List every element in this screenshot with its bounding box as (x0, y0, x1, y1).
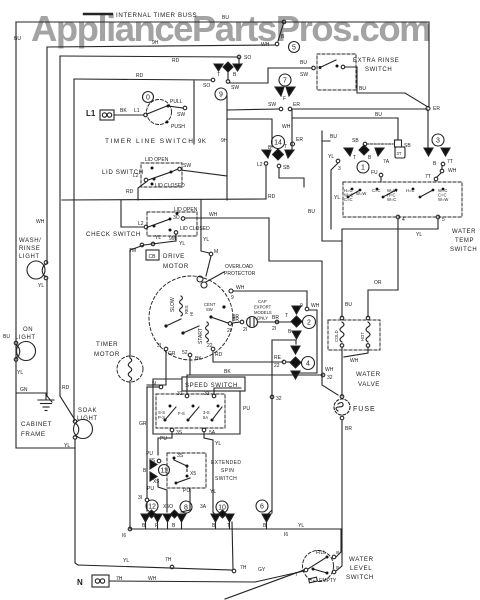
svg-text:SW: SW (183, 163, 191, 169)
terminal 7T lower (434, 177, 438, 181)
svg-text:PROTECTOR: PROTECTOR (224, 271, 256, 277)
svg-text:WATER: WATER (356, 371, 381, 378)
svg-text:L2: L2 (133, 173, 139, 179)
terminal FU (379, 173, 383, 177)
svg-text:ON: ON (23, 327, 33, 333)
label W=C C=C W=W stack (438, 188, 448, 202)
svg-text:BU: BU (330, 134, 337, 140)
svg-text:GR: GR (139, 421, 147, 427)
wire: capacitor to connector 2 (258, 321, 291, 323)
svg-text:START: START (198, 328, 204, 344)
svg-text:2I: 2I (272, 326, 276, 332)
wire: WH node up to y291 (306, 291, 308, 307)
svg-text:L1: L1 (86, 109, 96, 118)
check open contact (176, 212, 179, 215)
extra rinse switch dashed box (317, 54, 356, 90)
terminal 4 (396, 215, 400, 219)
cent switch contact (209, 305, 228, 323)
svg-text:7T: 7T (425, 174, 431, 180)
wire: SW contact feed to extra rinse (228, 68, 312, 83)
svg-text:X5: X5 (190, 471, 196, 477)
svg-text:SW: SW (268, 102, 276, 108)
svg-text:EXTRA RINSE: EXTRA RINSE (353, 58, 399, 64)
wire: x60 vertical (59, 56, 61, 396)
extended spin dashed box (167, 453, 206, 488)
wire: 3 terminal down left edge (331, 163, 338, 229)
svg-text:RD: RD (136, 73, 144, 79)
wire: ext spin out down (181, 488, 190, 512)
svg-text:TIMER LINE SWITCH: TIMER LINE SWITCH (105, 138, 194, 145)
svg-text:FUSE: FUSE (353, 406, 376, 413)
svg-text:WH: WH (36, 219, 45, 225)
svg-text:5: 5 (442, 217, 445, 223)
svg-text:3: 3 (436, 138, 440, 145)
svg-text:YL: YL (328, 154, 334, 160)
svg-text:BU: BU (308, 209, 315, 215)
svg-text:22: 22 (274, 363, 280, 369)
node 32 on right (321, 373, 325, 377)
circled 11 (159, 465, 170, 476)
svg-text:ONLY: ONLY (257, 316, 268, 321)
svg-text:7T: 7T (447, 159, 453, 165)
terminal RE 22 (282, 360, 286, 364)
motor winding SLOW (170, 296, 183, 316)
terminal 33 (212, 394, 216, 398)
lid switch dashed box (141, 163, 182, 187)
wire: RD line y200 (62, 199, 266, 200)
svg-text:DRIVE: DRIVE (163, 253, 185, 260)
svg-text:T: T (285, 313, 288, 319)
svg-text:3S: 3S (177, 453, 184, 459)
wire: lid SW to timer bus (181, 170, 227, 176)
speed contacts 3 (211, 405, 223, 422)
svg-text:4: 4 (306, 361, 310, 368)
svg-text:LEVEL: LEVEL (350, 565, 372, 572)
svg-text:YL: YL (38, 283, 44, 289)
circled 2 (303, 316, 316, 329)
svg-text:TIMER: TIMER (96, 341, 118, 348)
svg-text:T: T (284, 144, 287, 150)
svg-text:SO: SO (244, 55, 251, 61)
svg-text:2: 2 (307, 320, 311, 327)
wire: SO to T triangle (238, 57, 240, 63)
wire: 8 stubs to bus (168, 522, 182, 529)
svg-text:HI: HI (189, 312, 194, 316)
wire: extra rinse output to ER node (345, 67, 428, 107)
svg-text:2I: 2I (227, 328, 231, 334)
svg-text:YL: YL (17, 370, 23, 376)
terminal SW under 7 (279, 107, 283, 111)
empty contact (326, 570, 336, 574)
svg-text:2I: 2I (243, 327, 247, 333)
svg-text:PUSH: PUSH (171, 124, 185, 130)
ER node (426, 107, 430, 111)
on light (14, 341, 35, 361)
svg-text:WH: WH (236, 285, 245, 291)
end node (232, 569, 236, 573)
connector 6 triangle (262, 514, 271, 522)
svg-text:YL: YL (155, 235, 161, 241)
svg-text:BU: BU (222, 15, 229, 21)
label RES HI (184, 305, 194, 316)
lid closed contact (151, 183, 154, 186)
drive motor dashed circle (149, 276, 233, 360)
timer motor label (94, 341, 120, 358)
L1 plug connector (100, 110, 114, 120)
wire: 5I feed left and down (147, 386, 159, 388)
svg-text:L2: L2 (138, 221, 144, 227)
svg-text:3T: 3T (397, 151, 402, 156)
svg-text:WH: WH (148, 576, 157, 582)
svg-text:L1: L1 (134, 108, 140, 114)
wire: y119 branch to connector 14 (227, 119, 272, 147)
svg-text:YL: YL (210, 489, 216, 495)
connector 1 cluster (344, 145, 384, 156)
connector 14 triangles and diamond (262, 149, 294, 160)
label DRIVE MOTOR (163, 253, 189, 270)
node ER on x292 (291, 142, 295, 146)
terminal 22 RD (211, 347, 215, 351)
svg-text:GY: GY (258, 567, 266, 573)
water level pole (304, 557, 327, 573)
label WATER TEMP SWITCH (450, 229, 477, 253)
wire: RD diagonal to soak light (60, 396, 75, 420)
svg-text:RD: RD (62, 385, 70, 391)
svg-text:YL: YL (215, 441, 221, 447)
connector harness box (295, 310, 317, 373)
terminal WH (440, 169, 444, 173)
wire: cold bottom to fuse (341, 347, 343, 396)
svg-text:5: 5 (292, 45, 296, 52)
wire: BR to capacitor (232, 322, 240, 323)
svg-text:3A: 3A (200, 504, 207, 510)
overload protector symbol (197, 272, 224, 288)
wire: 33 to PU edge (214, 388, 241, 394)
circled 5 (289, 42, 300, 53)
wire: GY diagonal to pole (225, 570, 304, 599)
svg-text:7: 7 (295, 572, 298, 578)
svg-text:INTERNAL TIMER BUSS: INTERNAL TIMER BUSS (116, 12, 197, 19)
svg-text:3O: 3O (173, 215, 180, 221)
svg-text:BK: BK (195, 356, 202, 362)
svg-text:PU: PU (146, 451, 153, 457)
wire: hot bottom join (344, 347, 368, 357)
lid open contact (151, 167, 154, 170)
svg-text:PU: PU (147, 486, 154, 492)
timer line switch enclosure right edge (193, 81, 195, 144)
svg-text:PU: PU (243, 406, 250, 412)
wire: lid L2 down to RD line (138, 182, 146, 200)
terminal BR right (275, 320, 279, 324)
terminal 3I GR (164, 347, 168, 351)
svg-text:14: 14 (274, 140, 282, 147)
svg-text:CHECK SWITCH: CHECK SWITCH (86, 231, 141, 238)
wire: WH run right (233, 290, 307, 292)
temp switch contacts group 1 (347, 188, 362, 199)
lid switch pole L2 (144, 167, 181, 182)
wire: I5 to extended spin (158, 432, 172, 455)
terminal TM (140, 242, 155, 247)
svg-text:BU: BU (3, 334, 10, 340)
motor winding START (198, 322, 209, 344)
svg-text:OVERLOAD: OVERLOAD (225, 264, 253, 270)
terminal SO lower (211, 78, 215, 82)
wire: WH/ER vertical x292 (291, 109, 293, 149)
svg-text:5A: 5A (203, 415, 208, 420)
svg-text:BR: BR (272, 315, 279, 321)
terminal 7T (441, 162, 445, 166)
circled 8 (180, 501, 192, 513)
check switch pole (144, 218, 171, 229)
svg-text:RE: RE (274, 355, 282, 361)
wire: BU run to SB terminal (292, 118, 398, 140)
svg-text:9H: 9H (152, 40, 159, 46)
svg-text:P-S: P-S (158, 415, 165, 420)
svg-text:W=C: W=C (387, 197, 396, 202)
wire: RD bus lower (74, 79, 211, 80)
soak light (73, 420, 92, 440)
terminal 3S (157, 459, 161, 463)
svg-text:32: 32 (327, 375, 333, 381)
wire: x47 tail join (47, 396, 52, 402)
svg-text:C=C: C=C (344, 197, 353, 202)
svg-text:YL: YL (123, 558, 129, 564)
terminal 5A bottom (202, 428, 206, 432)
label CABINET FRAME (21, 421, 52, 438)
svg-text:52: 52 (182, 350, 188, 356)
label WATER VALVE (356, 371, 381, 388)
speed switch dashed box (156, 394, 225, 428)
wire: into dashed box (437, 173, 441, 177)
svg-text:GN: GN (20, 387, 28, 393)
label EXTENDED SPIN SWITCH (211, 460, 241, 482)
svg-text:N: N (77, 578, 83, 587)
terminal 3I (145, 498, 149, 502)
svg-text:BK: BK (120, 108, 127, 114)
node WH above 2 (305, 307, 309, 311)
svg-text:LID CLOSED: LID CLOSED (180, 226, 210, 232)
speed switch label box (182, 377, 245, 391)
svg-text:7H: 7H (116, 576, 123, 582)
svg-text:SWITCH: SWITCH (450, 247, 477, 253)
svg-text:PULL: PULL (170, 99, 183, 105)
svg-text:EXPORT: EXPORT (254, 305, 272, 310)
svg-text:4: 4 (402, 217, 405, 223)
svg-text:12: 12 (148, 504, 156, 511)
connector 2 cluster (291, 306, 302, 339)
soak light label (77, 408, 98, 422)
svg-text:F-S: F-S (178, 411, 185, 416)
wire: N line (109, 581, 255, 582)
circled 3 (432, 134, 444, 146)
svg-text:HOT: HOT (360, 332, 365, 341)
wire: 9H bus (47, 45, 275, 47)
svg-text:BU: BU (14, 36, 21, 42)
wire: link to 4 diamond (286, 361, 290, 363)
terminal YL/3 (336, 159, 340, 163)
node WH on motor (229, 289, 233, 293)
svg-text:9H: 9H (221, 138, 228, 144)
wire: GR to speed switch 5I (147, 351, 166, 385)
svg-text:SWITCH: SWITCH (215, 476, 237, 482)
svg-text:T: T (217, 72, 220, 78)
svg-text:7: 7 (283, 78, 287, 85)
circled 14 (272, 136, 285, 149)
svg-text:SWITCH: SWITCH (346, 574, 374, 581)
empty damper symbol (309, 577, 318, 583)
svg-text:7H: 7H (240, 565, 247, 571)
SB dashed link (363, 142, 393, 146)
svg-text:FU: FU (371, 170, 378, 176)
wire: ER run to ER node (292, 108, 427, 110)
wire: BK bus from 32 (187, 375, 323, 394)
N plug connector (92, 575, 109, 587)
svg-text:1: 1 (361, 165, 365, 172)
label W=W H=C W=C stack (387, 188, 397, 202)
cold solenoid (340, 316, 344, 347)
wire: x74 vertical (73, 79, 75, 421)
speed contacts 2 (187, 405, 200, 422)
wire: RE/22 run to connector 4 (213, 351, 283, 362)
svg-text:EXTENDED: EXTENDED (211, 460, 241, 466)
connector cluster 9: triangles and diamond (214, 62, 242, 72)
svg-text:MOTOR: MOTOR (94, 351, 120, 358)
svg-text:5I: 5I (152, 381, 156, 387)
svg-text:SW: SW (177, 112, 185, 118)
node WH (275, 42, 279, 46)
svg-text:BU: BU (345, 302, 352, 308)
svg-text:X5O: X5O (163, 504, 173, 510)
svg-text:GR: GR (168, 351, 176, 357)
svg-text:RD: RD (172, 58, 180, 64)
wire: 5A down to YL drop (204, 432, 213, 512)
wire: 32 branch (272, 340, 296, 513)
circled 12 (146, 500, 158, 512)
svg-text:SPIN: SPIN (221, 468, 234, 474)
fill contact (326, 555, 336, 559)
svg-text:RD: RD (215, 352, 223, 358)
wire: 12 stubs to bus (146, 502, 158, 529)
terminal I5 bottom (170, 428, 174, 432)
svg-text:9: 9 (231, 295, 234, 301)
svg-text:M: M (214, 249, 218, 255)
temp switch contacts group 2 (376, 188, 398, 199)
wire: x47 through light (46, 279, 48, 396)
wire: WH down and to water temp feed (269, 218, 338, 395)
ext spin contacts (173, 457, 191, 485)
wash rinse light (27, 261, 48, 280)
terminal ER under 7 (288, 107, 292, 111)
node on bus (170, 565, 174, 569)
svg-text:5A: 5A (209, 430, 216, 436)
terminal L2 under 14 (264, 162, 268, 166)
wire: drop to WH node (278, 22, 284, 41)
svg-text:SW: SW (206, 307, 213, 312)
svg-text:ER: ER (433, 106, 440, 112)
drive motor CB box (146, 250, 159, 260)
svg-text:ER: ER (293, 102, 300, 108)
wire: left frame vertical (15, 22, 17, 448)
speed contacts 1 (164, 405, 177, 422)
terminal SB under 14 (277, 164, 281, 168)
legend: internal timer buss (84, 13, 112, 15)
svg-text:I6: I6 (122, 533, 126, 539)
labels S-S P-S (158, 410, 165, 420)
timer line switch pole (144, 105, 187, 117)
temp switch contacts group 3 (412, 188, 445, 199)
wire: top bus L1 (BU) (16, 22, 429, 107)
svg-text:WATER: WATER (349, 556, 374, 563)
svg-text:3I: 3I (157, 343, 161, 349)
svg-text:LID CLOSED: LID CLOSED (155, 183, 185, 189)
label CENT SW (204, 302, 216, 312)
ground wire (16, 393, 46, 399)
svg-text:TEMP: TEMP (455, 238, 474, 244)
node on top bus (282, 20, 286, 24)
wire: FU into switch (380, 177, 382, 182)
motor pivots and levers (164, 319, 199, 335)
svg-text:WATER: WATER (452, 229, 476, 235)
circled 7 (279, 74, 291, 86)
wire: SB run right (279, 168, 304, 187)
svg-text:FRAME: FRAME (21, 431, 46, 438)
svg-text:WASH/: WASH/ (19, 238, 41, 244)
svg-text:PU: PU (160, 436, 167, 442)
wire: M drop into motor (201, 200, 209, 253)
wire: timer motor down to yl bus (129, 382, 131, 529)
svg-text:SWITCH: SWITCH (365, 67, 392, 73)
svg-text:PU: PU (183, 488, 190, 494)
connector 8 triangles (163, 510, 186, 522)
wire: N line diagonal (255, 571, 304, 582)
on light label (15, 327, 36, 341)
wire: YL bus bottom (130, 528, 341, 530)
terminal M (209, 252, 213, 256)
circled 6 (256, 500, 268, 512)
wire: M to overload (206, 256, 211, 276)
svg-text:LID OPEN: LID OPEN (145, 157, 169, 163)
wire: bus corner to fill contact (340, 529, 342, 551)
hot solenoid (366, 316, 370, 347)
label OVERLOAD PROTECTOR (224, 264, 256, 277)
wire: SW stub from timer bus (227, 109, 279, 110)
svg-text:6: 6 (260, 504, 264, 511)
connector 4 cluster (290, 346, 301, 379)
svg-text:3I: 3I (138, 495, 142, 501)
svg-text:BK: BK (224, 369, 231, 375)
svg-text:SB: SB (352, 138, 359, 144)
svg-text:32: 32 (177, 391, 183, 397)
svg-text:YL: YL (298, 523, 304, 529)
3T terminal box (395, 147, 405, 158)
wire: 11 down to connector 8 (158, 479, 167, 512)
wire: L1 to switch (114, 114, 143, 116)
labels 3-S 5A (203, 410, 210, 420)
svg-text:32: 32 (276, 396, 282, 402)
svg-text:VALVE: VALVE (358, 381, 380, 388)
svg-text:T: T (353, 155, 356, 161)
svg-text:SOAK: SOAK (78, 408, 97, 414)
svg-text:ER: ER (296, 137, 303, 143)
timer motor winding (128, 358, 132, 381)
svg-text:BU: BU (300, 60, 307, 66)
connector 11 triangles (150, 460, 157, 481)
svg-text:BR: BR (232, 314, 239, 320)
circled 10 (216, 501, 228, 513)
water valve dashed box (328, 320, 380, 350)
wire: RD bus upper (60, 56, 237, 57)
terminal SO upper (237, 55, 241, 59)
